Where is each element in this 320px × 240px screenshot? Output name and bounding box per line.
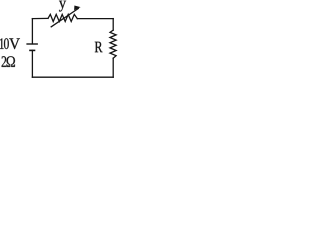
label 10V	[0, 38, 20, 49]
wire right lower	[112, 58, 114, 77]
label R	[95, 42, 103, 52]
wire left upper	[31, 19, 33, 44]
resistor R zigzag	[110, 30, 116, 58]
battery long plate (positive)	[26, 43, 38, 45]
wire right upper	[112, 19, 114, 31]
rheostat arrowhead	[74, 6, 81, 11]
battery short plate (negative)	[29, 49, 35, 51]
label y	[59, 1, 66, 12]
rheostat arrow shaft	[51, 9, 78, 27]
rheostat (variable resistor) zigzag	[48, 14, 77, 21]
wire top-right segment	[77, 18, 113, 20]
wire left lower	[31, 50, 33, 77]
wire top-left segment	[32, 17, 48, 19]
label 2Ω	[2, 56, 15, 67]
wire bottom	[32, 76, 113, 78]
